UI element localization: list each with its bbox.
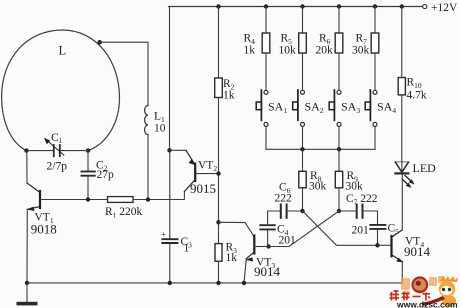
wire rail to R6 [338,7,340,34]
switch SA4 [365,90,377,126]
svg-text:R10: R10 [407,77,422,90]
LED emission arrows [403,176,415,188]
svg-text:L: L [59,44,67,58]
wire switch common rail [266,148,375,150]
wire cross coupling R8 node to VT4 base [303,211,378,245]
wire C1 branch left [27,150,54,152]
wire left supply vertical (rail to VT2 emitter node) [169,7,171,151]
wire L1 bottom to base line [147,135,149,200]
svg-text:20k: 20k [316,45,334,57]
wire C3 bottom to ground rail [169,243,171,283]
capacitor C1 (variable) [54,145,60,156]
wire switch rail to R8 [302,149,304,171]
svg-text:R1 220k: R1 220k [105,206,143,219]
wire VT1 base line to R1 [40,199,108,201]
resistor R2 [215,78,223,98]
node R6 rail dot [337,4,341,8]
wire R1 to VT2 collector corner [133,192,184,200]
wire rail to R2 [218,7,220,79]
svg-text:222: 222 [275,192,293,204]
svg-text:1: 1 [184,243,190,255]
wire R5 to SA2 [302,53,304,90]
node R7 rail dot [373,4,377,8]
transistor VT1 [26,183,40,211]
wire VT3 collector net [219,222,255,237]
wire C5 bottom to VT4 base [377,229,379,245]
inductor L1 [145,106,148,135]
resistor R9 [335,171,342,188]
wire R2 to R3 [218,98,220,244]
node C6/R8 junction [300,209,304,213]
node R3 ground junction [216,281,220,285]
watermark mascot [435,276,458,307]
node L1/base junction [146,197,150,201]
watermark emblem circle [411,276,428,293]
svg-text:+: + [161,230,166,240]
wire rail to R5 [302,7,304,34]
wire SA2 to switch rail [302,126,304,149]
terminal +12V circle [423,4,427,8]
wire R3 to ground [218,261,220,283]
resistor R6 [335,33,343,53]
capacitor C2 [82,172,95,176]
svg-text:30k: 30k [309,181,327,193]
wire SA1 to switch rail [265,126,267,149]
node R2 top rail dot [216,4,220,8]
wire R4 to SA1 [265,53,267,90]
node R9 top junction [337,147,341,151]
LED D1 [395,162,408,173]
wire antenna left dot down to VT1 collector [26,151,28,183]
svg-text:27p: 27p [97,169,115,181]
capacitor C4 [260,225,275,229]
capacitor C5 [370,225,385,229]
node R4 rail dot [264,4,268,8]
wire switch rail to R9 [338,149,340,171]
node R5 rail dot [300,4,304,8]
wire R7 to SA4 [374,53,376,90]
svg-text:9014: 9014 [404,244,431,259]
wire C1 branch right [61,150,88,152]
node R8 top junction [300,147,304,151]
wire C7 right lead to C5 [363,211,378,225]
wire cross coupling R9 node to VT3 base [269,211,339,247]
svg-text:4.7k: 4.7k [407,90,427,102]
node R3 top / VT3 collector junction [216,220,220,224]
svg-text:C1: C1 [51,132,63,145]
wire VT2 base to R2 column [195,173,218,175]
wire VT4 collector up to LED [401,174,403,230]
svg-text:+12V: +12V [431,2,458,14]
switch SA2 [293,90,305,126]
wire VT2 emitter node down to C3 [169,150,171,239]
node VT2 emitter junction [167,148,171,152]
resistor R7 [371,33,379,53]
watermark faint glyphs [401,276,445,295]
capacitor C7 [357,205,363,218]
resistor R1 [108,197,134,203]
svg-text:SA4: SA4 [377,100,396,115]
node antenna tap dot [98,40,102,44]
wire R10 top to rail [401,7,403,78]
svg-text:LED: LED [413,161,437,175]
node C7/R9 junction [337,209,341,213]
node antenna right terminal [86,148,90,152]
node VT3 emitter ground junction [242,281,246,285]
transistor VT4 [378,230,404,263]
svg-text:SA2: SA2 [305,100,324,115]
wire C7 left lead [339,210,357,212]
node VT2 base junction [216,171,220,175]
wire R9 to C7 node [338,188,340,211]
wire C4 to VT3 base [267,229,269,246]
node R10 rail dot [400,4,404,8]
capacitor C6 [281,205,287,218]
resistor R4 [262,33,270,53]
node ground rail left [25,281,29,285]
resistor R5 [299,33,307,53]
wire rail to R4 [265,7,267,34]
transistor VT3 [244,236,254,283]
node antenna left terminal [24,148,28,152]
resistor R8 [299,171,306,188]
wire SA4 to switch rail [374,126,376,149]
svg-text:SA3: SA3 [341,100,360,115]
node VT3 base junction [266,244,270,248]
svg-text:1k: 1k [223,90,235,102]
svg-text:1k: 1k [226,252,238,264]
resistor R10 [398,78,405,95]
svg-text:www.dzsc.com: www.dzsc.com [396,300,458,308]
svg-text:1k: 1k [244,45,256,57]
node C3 ground junction [168,281,172,285]
svg-text:9018: 9018 [31,222,57,237]
wire VT1 emitter to ground [26,209,28,283]
resistor R3 [215,244,222,262]
svg-text:9014: 9014 [254,264,281,279]
wire R6 to SA3 [338,53,340,90]
svg-text:C7 222: C7 222 [346,193,378,206]
capacitor C3 (electrolytic) [162,239,177,243]
wire C2 bottom to base line [87,176,89,200]
wire antenna tap to L1 top [100,42,148,105]
wire top +12V rail [169,6,423,8]
wire VT4 emitter down to ground rail [401,262,403,283]
wire ground rail [27,282,402,284]
node VT4 base junction [375,243,379,247]
svg-text:30k: 30k [346,181,364,193]
wire R8 to C6 node [302,188,304,211]
wire VT3 base [254,246,268,248]
switch SA3 [329,90,341,126]
svg-text:201: 201 [352,225,370,237]
svg-text:2/7p: 2/7p [47,161,68,173]
svg-text:SA1: SA1 [268,100,287,115]
wire LED anode up to R10 [401,95,403,162]
watermark text weiku [390,291,431,301]
svg-text:10k: 10k [279,45,297,57]
loop antenna L (open circle) [2,30,120,151]
wire C6 right to R8 node [287,210,303,212]
svg-text:VT2: VT2 [198,160,217,173]
switch SA1 [256,90,268,126]
svg-text:201: 201 [279,235,297,247]
ground [17,283,38,306]
svg-text:30k: 30k [352,45,370,57]
svg-text:10: 10 [154,123,166,135]
wire antenna right dot down to C2 [87,151,89,171]
wire SA3 to switch rail [338,126,340,149]
wire C4 top to C6 left [268,211,281,225]
wire rail to R7 [374,7,376,34]
transistor VT2 (PNP) [170,150,196,191]
watermark brush stroke [421,296,445,306]
node C2/base junction [86,197,90,201]
svg-text:9015: 9015 [190,181,216,196]
